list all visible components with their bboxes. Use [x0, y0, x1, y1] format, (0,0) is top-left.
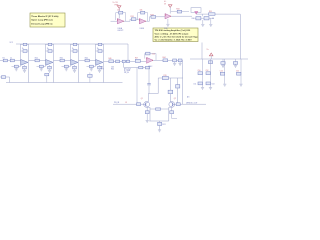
resistor R34 (U30D feedback) [171, 9, 189, 13]
ground col A [201, 88, 204, 90]
svg-text:C9: C9 [212, 18, 214, 20]
resistor R30 (U30A feedback) [116, 10, 126, 22]
svg-text:Vo = 1.35xVbe(th) = 1.35(0.7V): Vo = 1.35xVbe(th) = 1.35(0.7V) = 0.95V [155, 39, 193, 42]
capacitor C72 (to output) [176, 78, 180, 104]
resistor R53 (output network) [135, 58, 140, 63]
ground C62 [179, 64, 182, 66]
ground R72 [146, 121, 149, 123]
capacitor C55 (col D) [236, 71, 241, 76]
capacitor C21 (feedback top) [46, 43, 54, 45]
wire emitter left [148, 107, 150, 121]
resistor R52 (output network) [116, 60, 120, 63]
wire IF link [124, 63, 149, 68]
svg-text:C51: C51 [193, 84, 196, 86]
wire stage3 output vertical [78, 44, 80, 83]
wire demod output [175, 103, 206, 105]
resistor R8 (link series) [145, 66, 149, 69]
node labels IF nets [124, 68, 131, 74]
resistor R51 (output network) [109, 58, 114, 63]
resistor R22 (feedback) [46, 48, 54, 52]
wire stage4 output vertical [103, 44, 105, 83]
power flag PB (pink, down) [195, 12, 199, 15]
svg-text:V+ 5V: V+ 5V [113, 2, 119, 4]
ground stage2 cap [48, 70, 51, 72]
ground col C [223, 84, 226, 86]
capacitor C62 to ground [178, 59, 182, 63]
resistor R7 (link series) [139, 66, 143, 69]
transistor Q1 [141, 98, 150, 107]
label cluster corner [187, 96, 190, 99]
ground C42 [234, 66, 237, 68]
wire tail to ground [159, 126, 161, 130]
wire drop to gnd 1 [202, 14, 204, 24]
resistor R32 (U30B feedback) [138, 10, 148, 22]
resistor R23 (bias lower) [37, 61, 46, 69]
svg-text:10k: 10k [117, 10, 120, 12]
wire stage4 input vertical [95, 44, 97, 61]
svg-text:R34: R34 [176, 9, 179, 11]
svg-text:TP3: TP3 [101, 69, 104, 71]
svg-text:1k: 1k [72, 48, 74, 50]
wire cluster column C [224, 59, 226, 84]
resistor R64 (stage6 out) [163, 57, 168, 62]
svg-text:R33: R33 [150, 14, 153, 16]
wire U30D out [171, 15, 192, 17]
resistor R70 (load) [162, 75, 168, 80]
svg-text:R74: R74 [162, 124, 165, 126]
ground stage1 cap [23, 70, 26, 72]
wire tail [159, 121, 161, 122]
capacitor C5 under stage2 [45, 73, 49, 82]
capacitor C4 on bus [88, 73, 92, 83]
svg-text:AGC O + DC Vbe threshold for d: AGC O + DC Vbe threshold for demod 1Vpp [155, 35, 199, 38]
power flag V+ (stage A) [113, 2, 122, 18]
label lower row [212, 18, 214, 20]
wire stage3 input [54, 60, 71, 62]
wire PB drop [136, 68, 138, 105]
svg-text:R21: R21 [35, 57, 38, 59]
svg-text:C54: C54 [220, 71, 223, 73]
capacitor C53 (col B lower) [206, 82, 215, 86]
svg-text:R70: R70 [164, 75, 167, 77]
svg-text:J3: J3 [125, 102, 127, 104]
capacitor C41 (feedback top) [96, 43, 104, 45]
net labels under stage4 [101, 67, 104, 71]
wire Q1 collector [148, 78, 158, 102]
wire cluster column B [210, 59, 212, 87]
wire top supply bus [10, 42, 129, 44]
wire right output drop [182, 60, 184, 104]
svg-text:2.2k: 2.2k [152, 53, 155, 55]
capacitor C42 under rail [233, 59, 237, 65]
wire right supply rail [190, 58, 248, 60]
svg-text:1k: 1k [97, 48, 99, 50]
annotation rect (gray) [191, 8, 201, 13]
ground col D [239, 84, 242, 86]
capacitor C54 (col C) [220, 71, 225, 76]
wire U30A out [124, 19, 130, 21]
ground stage1 bias [15, 69, 18, 71]
op-amp U3 triangle [71, 60, 78, 66]
resistor R43 (bias lower) [87, 61, 96, 69]
capacitor C70 (series) [147, 84, 150, 94]
wire AGC top run [196, 13, 240, 15]
resistor R63 (stage6 feedback) [145, 52, 156, 60]
svg-text:C53: C53 [212, 84, 215, 86]
capacitor C1 (input series) [10, 57, 14, 61]
svg-text:PB_IN: PB_IN [114, 102, 120, 104]
ground tail [158, 130, 161, 132]
capacitor C52 (col B upper) [206, 70, 211, 75]
resistor R31 (series) [130, 16, 139, 21]
label demod input [114, 102, 127, 104]
resistor R1 (input series) [3, 57, 8, 61]
wire cluster column A [202, 59, 204, 87]
power flag V+ (stage C) [164, 1, 172, 13]
ground stage4 cap [98, 70, 101, 72]
capacitor C23 under op-amp [48, 65, 52, 70]
ground U30D [164, 19, 170, 30]
svg-text:C55: C55 [236, 71, 239, 73]
svg-text:R1: R1 [3, 57, 5, 59]
label U30A [118, 27, 124, 32]
capacitor C50 (col A upper) [198, 70, 203, 75]
op-amp U30A triangle (pink) [117, 19, 124, 24]
svg-text:PB_IN: PB_IN [124, 72, 130, 74]
wire stage4 input [79, 60, 96, 62]
wire emitter right [169, 107, 170, 121]
net labels under output network [111, 66, 114, 70]
capacitor C61 to ground [173, 59, 177, 63]
wire stage1 input vertical [20, 44, 22, 61]
wire U30B out [146, 17, 151, 21]
svg-text:1k: 1k [47, 48, 49, 50]
capacitor C11 (feedback top) [21, 43, 29, 45]
capacitor C51 (col A lower) [193, 82, 202, 86]
ground stage2 bias [40, 69, 43, 71]
resistor R75 (between emitters) [150, 108, 169, 110]
op-amp U4 triangle [96, 60, 103, 66]
svg-text:R41: R41 [85, 57, 88, 59]
op-amp U30B triangle (pink) [139, 19, 146, 24]
ground stage3 bias [65, 69, 68, 71]
wire IF drop to C70 [148, 68, 150, 84]
wire drop to gnd 2 [210, 18, 212, 24]
resistor R33 (series) [150, 14, 165, 18]
ground stage4 bias [90, 69, 93, 71]
capacitor C40 under rail [208, 61, 212, 64]
wire input from left edge [0, 60, 21, 62]
svg-text:R31: R31 [60, 57, 63, 59]
svg-text:R46: R46 [109, 58, 112, 60]
ground stage3 cap [73, 70, 76, 72]
resistor R73 (under Q2) [170, 108, 177, 119]
resistor R42 (lower row) [204, 17, 209, 20]
op-amp U2 triangle [46, 60, 53, 66]
capacitor C41 under rail [221, 59, 225, 65]
wire top bus drop [127, 44, 129, 60]
svg-text:Demod Loop (PB in): Demod Loop (PB in) [31, 23, 52, 25]
wire stage3 input vertical [70, 44, 72, 61]
capacitor C13 under op-amp [23, 65, 27, 70]
label U30B [140, 28, 145, 30]
resistor R13 (bias lower) [12, 61, 21, 69]
transistor Q2 [169, 98, 176, 107]
ground C41 [221, 66, 224, 68]
svg-text:Q2: Q2 [174, 98, 176, 100]
wire stage4 output run [104, 60, 147, 62]
svg-text:DEMOD_OUT: DEMOD_OUT [186, 102, 198, 104]
wire stage1 output vertical [28, 44, 30, 83]
wire stage2 input vertical [45, 44, 47, 61]
capacitor C52 (output network) [126, 60, 129, 62]
svg-text:R45: R45 [111, 68, 114, 70]
svg-text:LM6172: LM6172 [118, 30, 124, 32]
resistor R12 (feedback) [21, 48, 29, 52]
capacitor C2 on bottom bus [0, 76, 10, 83]
svg-text:Spare Loop (PB out): Spare Loop (PB out) [31, 19, 52, 22]
op-amp U30D triangle (pink) [165, 14, 171, 19]
wire stage2 output vertical [53, 44, 55, 83]
resistor R31 (series input) [60, 57, 65, 61]
wire stage6 output [153, 59, 183, 61]
note box N1 (three lines) [30, 13, 65, 27]
wire rail feed [201, 43, 203, 60]
ground lower row 1 [201, 24, 204, 26]
svg-text:R64: R64 [163, 57, 166, 59]
ground col B [209, 88, 212, 90]
svg-text:C50: C50 [198, 70, 201, 72]
capacitor C33 under op-amp [73, 65, 77, 70]
resistor R41 (series input) [85, 57, 90, 61]
op-amp U30C triangle (pink) [146, 57, 153, 68]
op-amp U1 triangle [21, 60, 28, 66]
wire stage2 input [29, 60, 46, 62]
resistor R35 (on top run) [209, 11, 215, 15]
resistor R71 (Q2 collector) [168, 78, 173, 102]
svg-text:R47: R47 [135, 58, 138, 60]
capacitor C31 (feedback top) [71, 43, 79, 45]
capacitor C51 (output network) [122, 60, 125, 62]
capacitor C71 (base series) [137, 103, 141, 106]
capacitor C43 under op-amp [98, 65, 102, 70]
svg-text:10k: 10k [140, 10, 143, 12]
svg-text:Three Blocks IF (27.5 kHz): Three Blocks IF (27.5 kHz) [31, 16, 58, 18]
svg-text:TP4 IF4 Limiting Amplifier (3: TP4 IF4 Limiting Amplifier (3 of) U30 [155, 29, 191, 32]
svg-text:R40: R40 [192, 18, 195, 20]
svg-text:C52: C52 [206, 70, 209, 72]
wire U30A input stub [111, 20, 118, 22]
resistor R41 (lower row) [196, 17, 201, 20]
svg-text:R35: R35 [209, 11, 212, 13]
ground C61 [173, 64, 176, 66]
resistor R32 (feedback) [71, 48, 79, 52]
svg-text:C1: C1 [10, 57, 12, 59]
wire right vertical drop [239, 14, 241, 59]
resistor R42 (feedback) [96, 48, 104, 52]
wire cluster column D [240, 59, 242, 84]
svg-text:Vout = 2.4Vpp - 27.5kHz IF3 ou: Vout = 2.4Vpp - 27.5kHz IF3 output [155, 32, 189, 35]
wire bottom bus [6, 82, 123, 84]
label R40 [192, 18, 195, 20]
wire demod input [113, 103, 144, 105]
ground lower row 2 [209, 24, 212, 26]
resistor R72 (under Q1) [145, 108, 149, 121]
resistor R33 (bias lower) [62, 61, 71, 69]
wire emitter bottom [149, 120, 169, 122]
wire lower row [195, 17, 214, 19]
svg-text:1k: 1k [22, 48, 24, 50]
svg-text:R31: R31 [131, 16, 134, 18]
wire collector load rail [158, 77, 183, 79]
capacitor C73 (output series) [176, 103, 180, 106]
note box N2 (four lines) [153, 28, 198, 42]
label demod output [186, 102, 198, 104]
resistor R74 (tail) [158, 122, 166, 126]
power flag V+ rail [207, 49, 214, 59]
resistor R21 (series input) [35, 57, 40, 61]
svg-text:Q1: Q1 [141, 98, 143, 100]
